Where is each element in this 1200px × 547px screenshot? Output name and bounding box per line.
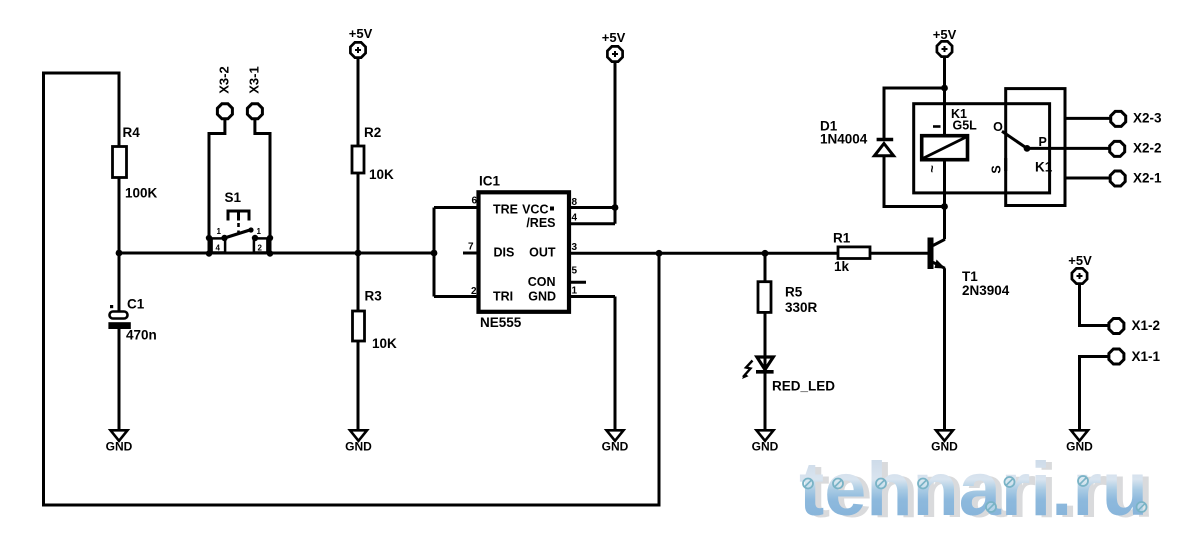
svg-text:X1-1: X1-1 <box>1132 349 1161 364</box>
svg-text:DIS: DIS <box>494 246 515 260</box>
svg-text:+5V: +5V <box>1068 253 1092 268</box>
svg-text:X1-2: X1-2 <box>1132 318 1161 333</box>
svg-text:~: ~ <box>925 165 940 173</box>
svg-text:2: 2 <box>471 286 477 297</box>
svg-text:1: 1 <box>257 227 262 236</box>
svg-text:7: 7 <box>468 242 474 253</box>
svg-text:GND: GND <box>106 440 133 454</box>
svg-text:470n: 470n <box>126 328 157 343</box>
svg-text:NE555: NE555 <box>480 315 522 330</box>
svg-text:S1: S1 <box>225 190 242 205</box>
svg-text:R3: R3 <box>365 289 383 304</box>
svg-text:2N3904: 2N3904 <box>962 283 1010 298</box>
svg-text:G5L: G5L <box>953 119 978 133</box>
svg-text:R4: R4 <box>123 125 141 140</box>
svg-text:P: P <box>1039 135 1047 149</box>
svg-text:GND: GND <box>602 440 629 454</box>
svg-text:X3-1: X3-1 <box>247 66 262 93</box>
svg-text:R2: R2 <box>364 125 381 140</box>
svg-text:R5: R5 <box>785 285 803 300</box>
svg-text:6: 6 <box>471 196 477 207</box>
svg-text:330R: 330R <box>785 300 818 315</box>
svg-text:S: S <box>990 165 1004 173</box>
svg-text:CON: CON <box>528 275 556 289</box>
svg-text:100K: 100K <box>125 186 158 201</box>
svg-text:O: O <box>993 120 1003 134</box>
svg-text:R1: R1 <box>833 231 851 246</box>
svg-text:X3-2: X3-2 <box>217 66 232 93</box>
svg-text:X2-1: X2-1 <box>1133 171 1162 186</box>
svg-text:/RES: /RES <box>526 216 555 230</box>
svg-text:TRI: TRI <box>493 290 513 304</box>
svg-text:8: 8 <box>572 197 578 208</box>
svg-text:5: 5 <box>572 266 578 277</box>
svg-text:T1: T1 <box>962 269 978 284</box>
svg-text:+5V: +5V <box>933 27 957 42</box>
svg-text:GND: GND <box>1066 440 1093 454</box>
svg-text:IC1: IC1 <box>479 174 501 189</box>
svg-text:1N4004: 1N4004 <box>820 132 868 147</box>
svg-text:1k: 1k <box>834 259 850 274</box>
svg-text:1: 1 <box>217 227 222 236</box>
svg-text:4: 4 <box>216 244 221 253</box>
svg-text:OUT: OUT <box>529 246 556 260</box>
svg-text:C1: C1 <box>127 297 145 312</box>
svg-text:VCC: VCC <box>522 203 548 217</box>
svg-text:4: 4 <box>572 213 578 224</box>
svg-text:1: 1 <box>572 286 578 297</box>
svg-text:10K: 10K <box>372 336 397 351</box>
svg-text:GND: GND <box>931 440 958 454</box>
svg-text:GND: GND <box>752 440 779 454</box>
svg-text:RED_LED: RED_LED <box>772 379 835 394</box>
svg-text:+5V: +5V <box>349 26 373 41</box>
svg-text:+5V: +5V <box>602 30 626 45</box>
svg-text:GND: GND <box>345 440 372 454</box>
svg-text:tehnari.ru: tehnari.ru <box>799 447 1148 532</box>
svg-text:GND: GND <box>528 290 556 304</box>
svg-text:X2-2: X2-2 <box>1133 141 1162 156</box>
svg-text:X2-3: X2-3 <box>1133 111 1162 126</box>
svg-text:2: 2 <box>258 244 263 253</box>
svg-text:3: 3 <box>572 242 578 253</box>
svg-text:TRE: TRE <box>493 203 518 217</box>
svg-text:10K: 10K <box>369 167 394 182</box>
svg-text:K1: K1 <box>1035 160 1053 175</box>
